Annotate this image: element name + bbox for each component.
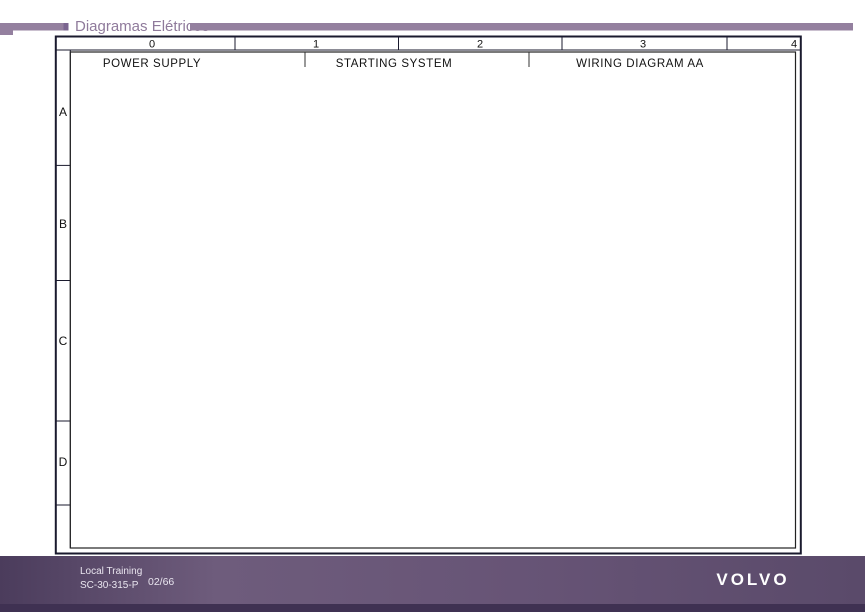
header bar left (0, 23, 64, 31)
svg-text:0: 0 (149, 39, 155, 51)
svg-text:Local Training: Local Training (80, 566, 142, 577)
svg-text:VOLVO: VOLVO (716, 570, 789, 589)
content box (70, 52, 795, 548)
title divider 2 (528, 52, 530, 67)
svg-text:C: C (59, 334, 68, 348)
row label column (69, 50, 71, 548)
svg-text:STARTING SYSTEM: STARTING SYSTEM (336, 58, 453, 70)
diagram outer frame (56, 37, 801, 554)
svg-text:A: A (59, 105, 67, 119)
svg-text:1: 1 (313, 39, 319, 51)
svg-text:SC-30-315-P: SC-30-315-P (80, 580, 139, 591)
header bar right (190, 23, 853, 31)
svg-text:WIRING DIAGRAM AA: WIRING DIAGRAM AA (576, 58, 704, 70)
svg-text:2: 2 (477, 39, 483, 51)
title divider 1 (304, 52, 306, 67)
svg-text:POWER SUPPLY: POWER SUPPLY (103, 58, 201, 70)
svg-text:D: D (59, 455, 68, 469)
scale ticks (234, 37, 236, 51)
svg-text:4: 4 (791, 39, 797, 51)
svg-text:3: 3 (640, 39, 646, 51)
svg-text:B: B (59, 217, 67, 231)
svg-text:Diagramas Elétricos: Diagramas Elétricos (75, 18, 209, 35)
scale row line (56, 49, 801, 51)
svg-text:02/66: 02/66 (148, 576, 174, 588)
